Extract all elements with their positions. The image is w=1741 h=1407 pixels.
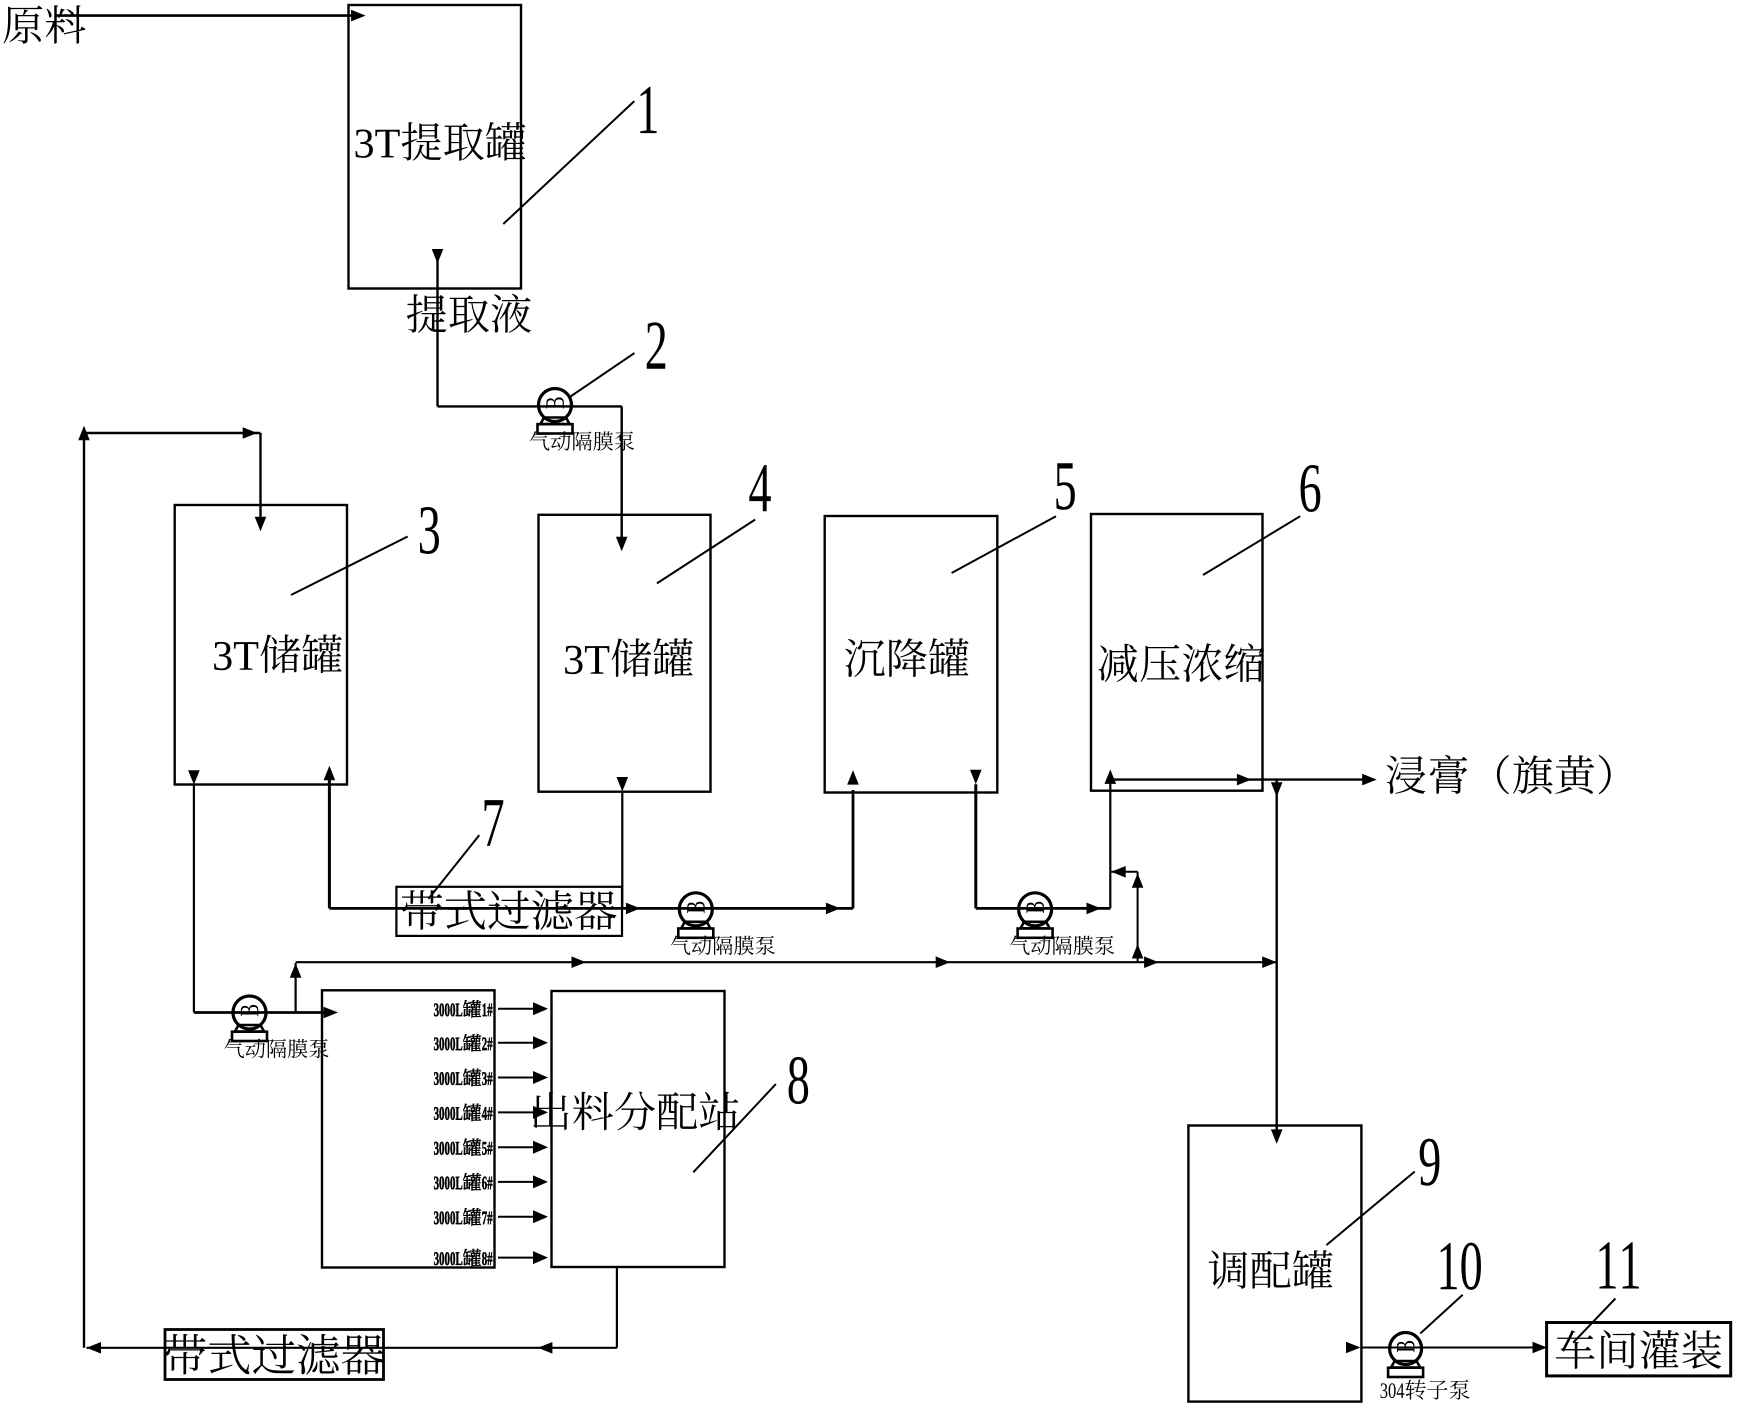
distribution line wire to blending tank bbox=[296, 956, 1277, 968]
3000L tank label 3000L罐6# bbox=[434, 1173, 493, 1190]
3000L tank label 3000L罐2# bbox=[434, 1034, 493, 1051]
3000L tank label 3000L罐5# bbox=[434, 1139, 493, 1156]
leader line for ref 4 bbox=[657, 520, 755, 584]
wire: tank 4 outlet down to belt filter line bbox=[617, 777, 629, 908]
wire: 3000L tank 3# to distribution station bbox=[498, 1071, 548, 1084]
pump 10 304转子泵 bbox=[1388, 1333, 1423, 1378]
ref number 6 bbox=[1301, 465, 1321, 512]
leader line for ref 1 bbox=[503, 101, 634, 224]
ref number 8 bbox=[789, 1057, 809, 1104]
distribution container box (3000L tanks) bbox=[322, 990, 495, 1267]
wire: tank 5 outlet down to pump bbox=[970, 770, 1110, 915]
wire: raw material feed into tank 1 bbox=[56, 10, 366, 22]
ref number 1 bbox=[640, 87, 656, 133]
3000L tank label 3000L罐1# bbox=[434, 1000, 493, 1017]
workshop filling 11 box 车间灌装 bbox=[1547, 1323, 1731, 1376]
wire: tank 3 outlet down to pump (bottom left) bbox=[188, 770, 338, 1018]
raw material label 原料 bbox=[4, 5, 86, 44]
leader line for ref 3 bbox=[291, 537, 408, 596]
pump 2 label 气动隔膜泵 bbox=[530, 431, 634, 451]
tank 6 label 减压浓缩 bbox=[1099, 643, 1265, 682]
leader line for ref 10 bbox=[1420, 1295, 1462, 1334]
wire: 3000L tank 1# to distribution station bbox=[498, 1002, 548, 1015]
wire: riser into tank 6 bbox=[1105, 769, 1117, 908]
leader line for ref 6 bbox=[1203, 516, 1300, 575]
tank 4 box 3T储罐 bbox=[539, 515, 711, 792]
pump 10 label 304转子泵 bbox=[1381, 1379, 1470, 1399]
distribution station 8 label 出料分配站 bbox=[533, 1091, 738, 1130]
leader line for ref 7 bbox=[428, 835, 479, 899]
blending tank 9 box 调配罐 bbox=[1188, 1126, 1361, 1402]
wire: branch down from tank 6 outlet to blending tank 9 bbox=[1271, 780, 1283, 1144]
3000L tank label 3000L罐8# bbox=[434, 1249, 493, 1266]
wire: station 8 outlet down and left to belt filter bbox=[87, 1267, 617, 1354]
pump 2 气动隔膜泵 bbox=[538, 389, 573, 434]
leader line for ref 9 bbox=[1326, 1172, 1414, 1246]
pump (belt filter) 气动隔膜泵 bbox=[678, 893, 713, 938]
ref number 5 bbox=[1056, 463, 1075, 510]
wire: 3000L tank 5# to distribution station bbox=[498, 1141, 548, 1154]
blending tank 9 label 调配罐 bbox=[1209, 1250, 1333, 1289]
belt filter label (bottom) 带式过滤器 bbox=[164, 1334, 384, 1375]
pump (tank 5 outlet) label 气动隔膜泵 bbox=[1010, 935, 1114, 955]
wire: 3000L tank 7# to distribution station bbox=[498, 1210, 548, 1223]
pump (bottom left) 气动隔膜泵 bbox=[232, 996, 267, 1041]
wire: link from distribution line to tank 6 riser bbox=[1111, 866, 1143, 962]
distribution station 8 box 出料分配站 bbox=[552, 991, 725, 1267]
leader line for ref 5 bbox=[952, 516, 1056, 573]
leader line for ref 8 bbox=[693, 1084, 776, 1172]
ref number 7 bbox=[485, 800, 504, 846]
workshop filling 11 label 车间灌装 bbox=[1556, 1330, 1722, 1369]
tank 3 label 3T储罐 bbox=[214, 634, 342, 673]
belt filter box (bottom) 带式过滤器 bbox=[165, 1330, 384, 1380]
tank 5 label 沉降罐 bbox=[845, 638, 969, 677]
wire: blending tank to workshop filling bbox=[1346, 1342, 1547, 1354]
wire: pump 2 discharge down into tank 4 bbox=[616, 406, 628, 551]
ref number 4 bbox=[749, 465, 770, 511]
wire: tank 6 outlet to extract 浸膏 and branch down bbox=[1110, 774, 1376, 786]
leader line for ref 2 bbox=[571, 353, 635, 396]
wire: riser from pump line to distribution line bbox=[290, 963, 302, 1013]
3000L tank label 3000L罐3# bbox=[434, 1069, 493, 1086]
tank 3 box 3T储罐 bbox=[175, 505, 347, 785]
wire: 3000L tank 4# to distribution station bbox=[498, 1106, 548, 1119]
ref number 11 bbox=[1599, 1242, 1638, 1288]
tank 1 box 3T提取罐 bbox=[349, 5, 522, 289]
belt filter 7 box 带式过滤器 bbox=[396, 887, 622, 936]
wire: belt filter line to pump and tank 5 bbox=[329, 770, 858, 914]
tank 4 label 3T储罐 bbox=[565, 638, 693, 677]
3000L tank label 3000L罐7# bbox=[434, 1208, 493, 1225]
extract label 提取液 bbox=[407, 294, 531, 333]
pump (belt filter) label 气动隔膜泵 bbox=[671, 935, 775, 955]
pump (bottom left) label 气动隔膜泵 bbox=[224, 1039, 328, 1059]
wire: tank 3 return line from belt filter bbox=[324, 766, 336, 909]
wire: 3000L tank 8# to distribution station bbox=[498, 1251, 548, 1264]
belt filter 7 label 带式过滤器 bbox=[402, 890, 617, 930]
tank 6 box 减压浓缩 bbox=[1091, 514, 1263, 791]
ref number 2 bbox=[647, 322, 666, 368]
tank 5 box 沉降罐 bbox=[825, 516, 998, 793]
3000L tank label 3000L罐4# bbox=[434, 1104, 493, 1121]
ref number 3 bbox=[420, 507, 439, 554]
wire: extract outlet from tank 1 down to pump 2 bbox=[432, 249, 622, 406]
leader line for ref 11 bbox=[1573, 1299, 1615, 1343]
tank 1 label 3T提取罐 bbox=[356, 122, 526, 161]
wire: recycle into tank 3 bbox=[84, 427, 266, 531]
ref number 9 bbox=[1420, 1139, 1440, 1186]
wire: 3000L tank 2# to distribution station bbox=[498, 1036, 548, 1049]
pump (tank 5 outlet) 气动隔膜泵 bbox=[1018, 893, 1053, 938]
recycle riser wire (left) bbox=[78, 426, 90, 1348]
extract label 浸膏（旗黄） bbox=[1387, 755, 1611, 794]
wire: 3000L tank 6# to distribution station bbox=[498, 1175, 548, 1188]
ref number 10 bbox=[1441, 1243, 1481, 1290]
